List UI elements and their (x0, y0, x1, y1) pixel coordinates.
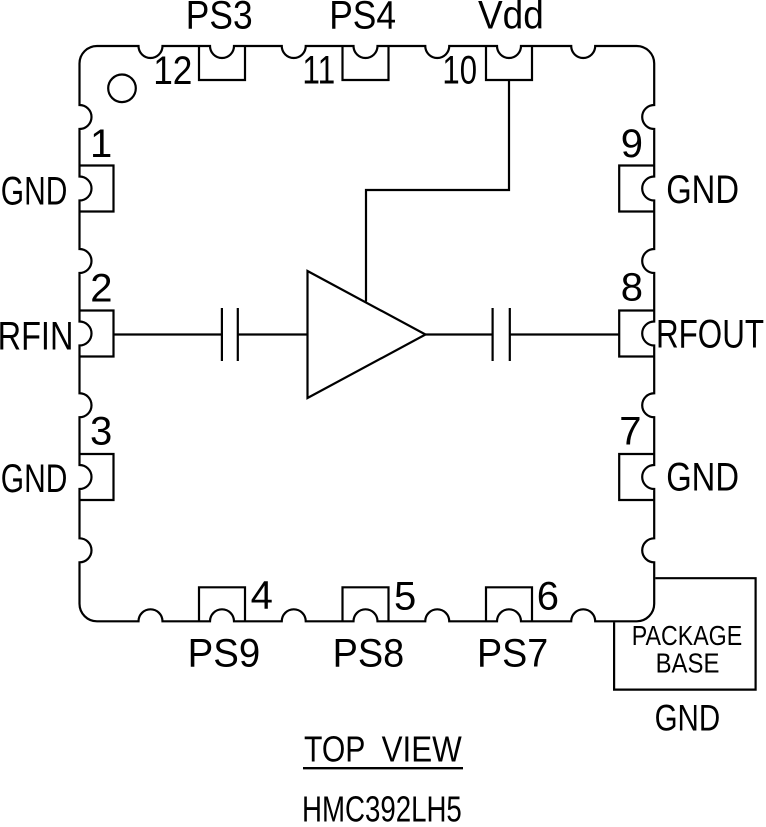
pin 8 pad (619, 311, 654, 357)
svg-text:HMC392LH5: HMC392LH5 (302, 789, 462, 827)
svg-text:GND: GND (1, 170, 68, 214)
pin 9 pad (619, 166, 654, 212)
svg-text:4: 4 (251, 574, 273, 618)
pin 2 pad (80, 311, 114, 357)
op-amp U1 amplifier triangle (308, 271, 426, 398)
svg-text:BASE: BASE (656, 647, 720, 678)
svg-text:GND: GND (666, 456, 739, 500)
svg-text:7: 7 (619, 410, 641, 454)
wire RFIN pin 2 to capacitor C1 (114, 333, 222, 335)
svg-text:PS7: PS7 (477, 632, 548, 676)
wire amplifier output to capacitor C2 (426, 333, 493, 335)
package base paddle box (614, 578, 756, 689)
wire capacitor C1 to amplifier input (238, 333, 308, 335)
svg-text:8: 8 (621, 266, 643, 310)
svg-text:12: 12 (153, 49, 192, 93)
capacitor C1 input DC block (222, 308, 238, 361)
wire Vdd pin 10 to amplifier supply (366, 80, 509, 302)
svg-text:2: 2 (90, 266, 112, 310)
svg-text:6: 6 (537, 575, 559, 619)
svg-text:Vdd: Vdd (478, 0, 544, 38)
svg-text:PACKAGE: PACKAGE (632, 620, 742, 651)
svg-text:GND: GND (666, 168, 739, 212)
pin 5 pad (343, 587, 389, 621)
svg-text:RFOUT: RFOUT (656, 313, 764, 357)
pin 6 pad (486, 587, 532, 621)
pin 10 pad (486, 46, 532, 80)
svg-text:1: 1 (90, 122, 112, 166)
pin 7 pad (619, 454, 654, 500)
svg-text:10: 10 (442, 49, 477, 93)
pin 1 pad (80, 166, 114, 212)
package outline with pin notches (80, 46, 655, 621)
svg-text:PS9: PS9 (188, 632, 261, 676)
wire capacitor C2 to RFOUT pin 8 (510, 333, 619, 335)
svg-text:VIEW: VIEW (382, 729, 462, 770)
svg-text:TOP: TOP (304, 729, 365, 770)
pin 11 pad (343, 46, 389, 80)
svg-text:RFIN: RFIN (0, 315, 73, 359)
svg-text:PS3: PS3 (186, 0, 253, 38)
svg-text:GND: GND (1, 457, 68, 501)
svg-text:PS4: PS4 (329, 0, 396, 38)
underline of TOP VIEW title (303, 767, 463, 769)
svg-text:11: 11 (302, 49, 335, 93)
pin 12 pad (199, 46, 245, 80)
svg-text:5: 5 (394, 575, 416, 619)
svg-text:GND: GND (655, 697, 721, 738)
pin 1 indicator circle (108, 75, 136, 103)
svg-text:3: 3 (90, 410, 112, 454)
svg-text:PS8: PS8 (333, 632, 405, 676)
capacitor C2 output DC block (493, 308, 510, 361)
pin 3 pad (80, 454, 114, 500)
pin 4 pad (199, 587, 245, 621)
svg-text:9: 9 (621, 122, 643, 166)
